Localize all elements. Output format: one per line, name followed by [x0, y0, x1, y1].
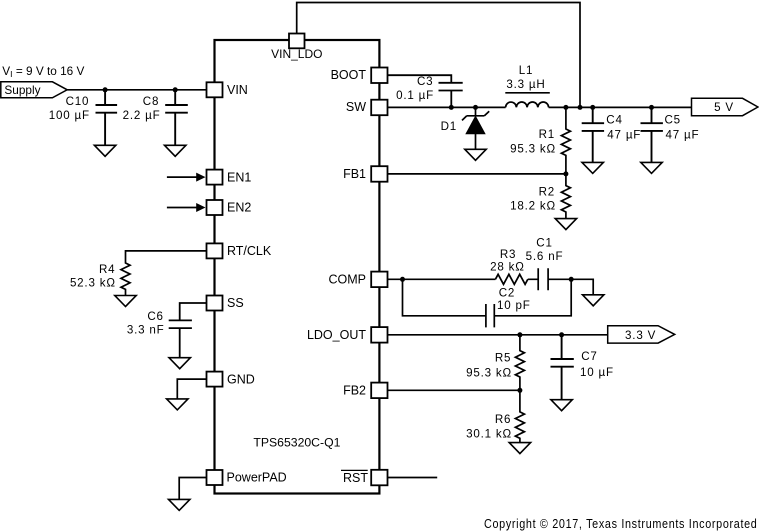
svg-text:R2: R2 — [539, 186, 555, 199]
svg-text:52.3 kΩ: 52.3 kΩ — [70, 277, 116, 290]
svg-text:C6: C6 — [147, 310, 163, 323]
svg-text:C10: C10 — [66, 95, 90, 108]
svg-text:95.3 kΩ: 95.3 kΩ — [510, 143, 556, 156]
svg-text:VIN_LDO: VIN_LDO — [271, 47, 322, 61]
svg-text:30.1 kΩ: 30.1 kΩ — [466, 428, 512, 441]
svg-text:SS: SS — [227, 296, 244, 310]
svg-text:L1: L1 — [519, 64, 534, 77]
svg-text:5 V: 5 V — [714, 101, 734, 114]
svg-text:28 kΩ: 28 kΩ — [490, 261, 525, 274]
svg-text:95.3 kΩ: 95.3 kΩ — [466, 366, 512, 379]
svg-text:C7: C7 — [581, 350, 597, 363]
svg-text:47 µF: 47 µF — [666, 129, 700, 142]
svg-text:Copyright © 2017, Texas Instru: Copyright © 2017, Texas Instruments Inco… — [484, 516, 758, 531]
svg-text:D1: D1 — [441, 120, 457, 133]
svg-text:VI = 9 V to 16 V: VI = 9 V to 16 V — [2, 64, 84, 79]
svg-text:EN2: EN2 — [227, 201, 251, 215]
svg-text:3.3 µH: 3.3 µH — [506, 78, 545, 91]
svg-text:SW: SW — [346, 100, 366, 114]
svg-text:BOOT: BOOT — [331, 68, 367, 82]
svg-text:5.6 nF: 5.6 nF — [526, 250, 564, 263]
svg-text:C2: C2 — [499, 286, 515, 299]
svg-text:2.2 µF: 2.2 µF — [123, 109, 161, 122]
svg-text:10 µF: 10 µF — [580, 366, 614, 379]
svg-text:C1: C1 — [536, 237, 552, 250]
svg-text:R3: R3 — [500, 248, 516, 261]
svg-text:R6: R6 — [495, 413, 511, 426]
svg-text:TPS65320C-Q1: TPS65320C-Q1 — [253, 435, 340, 449]
svg-text:EN1: EN1 — [227, 170, 251, 184]
svg-text:0.1 µF: 0.1 µF — [396, 89, 434, 102]
svg-text:C4: C4 — [606, 114, 622, 127]
svg-text:R1: R1 — [539, 128, 555, 141]
svg-text:3.3 V: 3.3 V — [625, 329, 656, 342]
svg-text:100 µF: 100 µF — [49, 109, 90, 122]
svg-text:Supply: Supply — [4, 83, 40, 97]
svg-text:C5: C5 — [665, 114, 681, 127]
svg-text:R5: R5 — [495, 352, 511, 365]
svg-text:47 µF: 47 µF — [607, 129, 641, 142]
svg-text:C8: C8 — [143, 95, 159, 108]
svg-text:FB1: FB1 — [343, 167, 366, 181]
svg-text:18.2 kΩ: 18.2 kΩ — [510, 200, 556, 213]
svg-text:RST: RST — [343, 471, 368, 485]
svg-text:3.3 nF: 3.3 nF — [127, 324, 165, 337]
svg-text:PowerPAD: PowerPAD — [227, 471, 287, 485]
svg-text:LDO_OUT: LDO_OUT — [307, 328, 366, 342]
svg-text:COMP: COMP — [329, 273, 367, 287]
svg-text:GND: GND — [227, 372, 255, 386]
svg-text:FB2: FB2 — [343, 384, 366, 398]
svg-text:10 pF: 10 pF — [497, 299, 531, 312]
svg-text:C3: C3 — [417, 75, 433, 88]
svg-text:RT/CLK: RT/CLK — [227, 244, 272, 258]
svg-text:R4: R4 — [99, 263, 115, 276]
svg-text:VIN: VIN — [227, 83, 248, 97]
